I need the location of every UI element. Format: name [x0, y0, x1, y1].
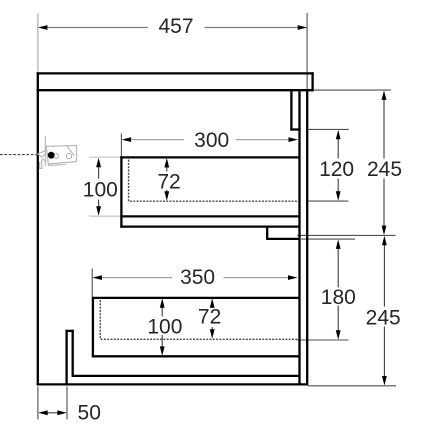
dim 72 lower line [210, 298, 215, 339]
bottom shelf panel [73, 375, 300, 377]
svg-text:100: 100 [147, 316, 182, 339]
svg-text:120: 120 [319, 158, 354, 181]
dim 180 extension bottom [297, 339, 349, 341]
upper drawer box [120, 156, 299, 227]
svg-text:457: 457 [158, 15, 193, 38]
lower drawer box [92, 297, 300, 358]
svg-text:245: 245 [366, 306, 401, 329]
cabinet bottom edge [37, 383, 308, 385]
dim 180 line [336, 239, 341, 339]
svg-text:245: 245 [367, 158, 402, 181]
hinge axis dashed line [0, 154, 38, 156]
svg-text:180: 180 [321, 286, 356, 309]
svg-text:100: 100 [83, 179, 118, 202]
svg-text:300: 300 [194, 129, 229, 152]
dim 300 line [122, 137, 298, 142]
svg-text:72: 72 [198, 305, 221, 328]
dim 100 upper extensions [89, 156, 122, 158]
dim 245 upper extension top [314, 89, 391, 91]
dim 50 extension left [37, 387, 39, 420]
dim 50 extension right [66, 387, 68, 420]
back panel [300, 89, 308, 385]
dim 120 line [336, 130, 341, 201]
dim 50 line [38, 410, 67, 415]
dim 100 upper line [96, 158, 101, 216]
dim 457 extension left [37, 14, 39, 72]
hanging rail notch [290, 89, 300, 130]
cabinet front panel [37, 72, 39, 385]
dim 100 lower line [160, 298, 165, 356]
drawer slide bracket detail [38, 136, 77, 168]
bracket pin [48, 152, 55, 159]
dim 350 line [92, 275, 297, 280]
dim 120 extension top [309, 128, 349, 130]
dim 300 extension [120, 134, 122, 157]
countertop panel [37, 72, 314, 91]
dim 350 extension [91, 269, 93, 297]
dim 245 upper line [382, 90, 387, 235]
dim 457 extension right [306, 13, 308, 89]
dim 120 extension bottom [307, 200, 348, 202]
dim 457 line [38, 25, 307, 30]
upper drawer inner dashed profile [129, 160, 299, 202]
front leg plinth [66, 330, 74, 386]
svg-text:350: 350 [180, 266, 215, 289]
dim 245 mid extension [297, 234, 396, 236]
dim 180 extension top [301, 238, 355, 240]
upper drawer rear rail step [266, 226, 299, 240]
dim 72 upper line [164, 158, 169, 201]
dim 245 lower line [382, 236, 387, 386]
dim 245 lower extension bottom [308, 385, 396, 387]
svg-text:50: 50 [78, 402, 101, 425]
svg-text:72: 72 [157, 170, 180, 193]
lower drawer inner dashed profile [100, 300, 298, 339]
